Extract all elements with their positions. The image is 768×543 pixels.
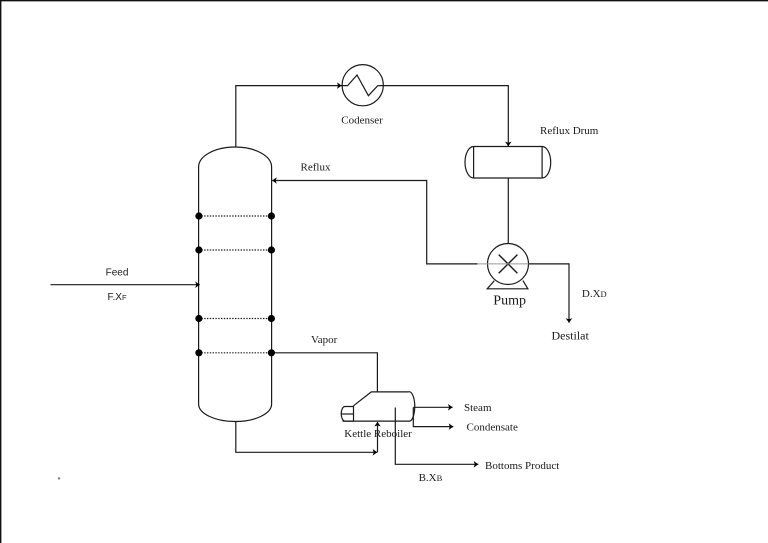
feed arrow [51, 284, 200, 286]
svg-text:D.XD: D.XD [582, 288, 607, 300]
kettle reboiler E1 body [343, 392, 415, 421]
tray 1 right dot [268, 212, 275, 219]
svg-text:Kettle Reboiler: Kettle Reboiler [344, 428, 412, 440]
page top border [0, 0, 768, 2]
tray 3 dotted line [199, 318, 272, 320]
svg-text:Steam: Steam [464, 402, 492, 414]
svg-text:Reflux: Reflux [301, 161, 331, 173]
svg-text:Destilat: Destilat [552, 329, 590, 343]
condenser U1 circle [342, 65, 383, 106]
svg-text:B.XB: B.XB [419, 472, 443, 484]
pump P1 circle [488, 244, 529, 285]
kettle reboiler channel mid line [342, 413, 354, 415]
svg-text:Reflux Drum: Reflux Drum [540, 125, 599, 137]
pump center line [477, 263, 535, 265]
distillation column shell [199, 147, 272, 422]
tray 1 left dot [195, 212, 202, 219]
column bottoms pipe to reboiler [236, 422, 377, 453]
pump impeller X [499, 255, 518, 274]
tray 2 dotted line [199, 249, 272, 251]
svg-text:Feed: Feed [106, 268, 129, 279]
svg-text:Condensate: Condensate [467, 422, 518, 434]
tray 2 left dot [195, 246, 202, 253]
pipe condenser to reflux drum [383, 86, 508, 147]
steam line [414, 406, 453, 408]
svg-text:F.XF: F.XF [108, 292, 127, 303]
pump base [487, 281, 528, 289]
tray 4 left dot [195, 349, 202, 356]
kettle reboiler channel tube sheet [353, 406, 355, 422]
pump discharge pipe to destilat [529, 264, 570, 323]
tray 4 dotted line [199, 352, 272, 354]
tray 2 right dot [268, 246, 275, 253]
svg-text:Bottoms Product: Bottoms Product [485, 460, 559, 472]
reflux drum left head seam [473, 147, 475, 179]
svg-text:Vapor: Vapor [311, 334, 338, 346]
condensate line [413, 407, 453, 426]
tray 1 dotted line [199, 215, 272, 217]
svg-text:Pump: Pump [493, 294, 526, 309]
overhead vapor pipe: column top to condenser [236, 86, 342, 148]
reboiler inlet riser [377, 422, 379, 452]
svg-text:Codenser: Codenser [341, 115, 383, 127]
pipe reflux drum to pump [507, 178, 509, 243]
kettle reboiler weir and bottoms outlet [395, 408, 478, 465]
page left border [0, 0, 2, 543]
condenser zigzag coil [342, 75, 383, 96]
tray 3 right dot [268, 315, 275, 322]
kettle reboiler left channel nozzle [341, 407, 353, 422]
tray 4 right dot [268, 349, 275, 356]
reflux drum right head seam [541, 147, 543, 179]
vapor pipe: bottom tray to reboiler top [272, 353, 378, 392]
pump suction / reflux branch pipe [272, 181, 477, 264]
stray period mark [58, 477, 60, 479]
tray 3 left dot [195, 315, 202, 322]
reflux drum shell [465, 147, 551, 179]
